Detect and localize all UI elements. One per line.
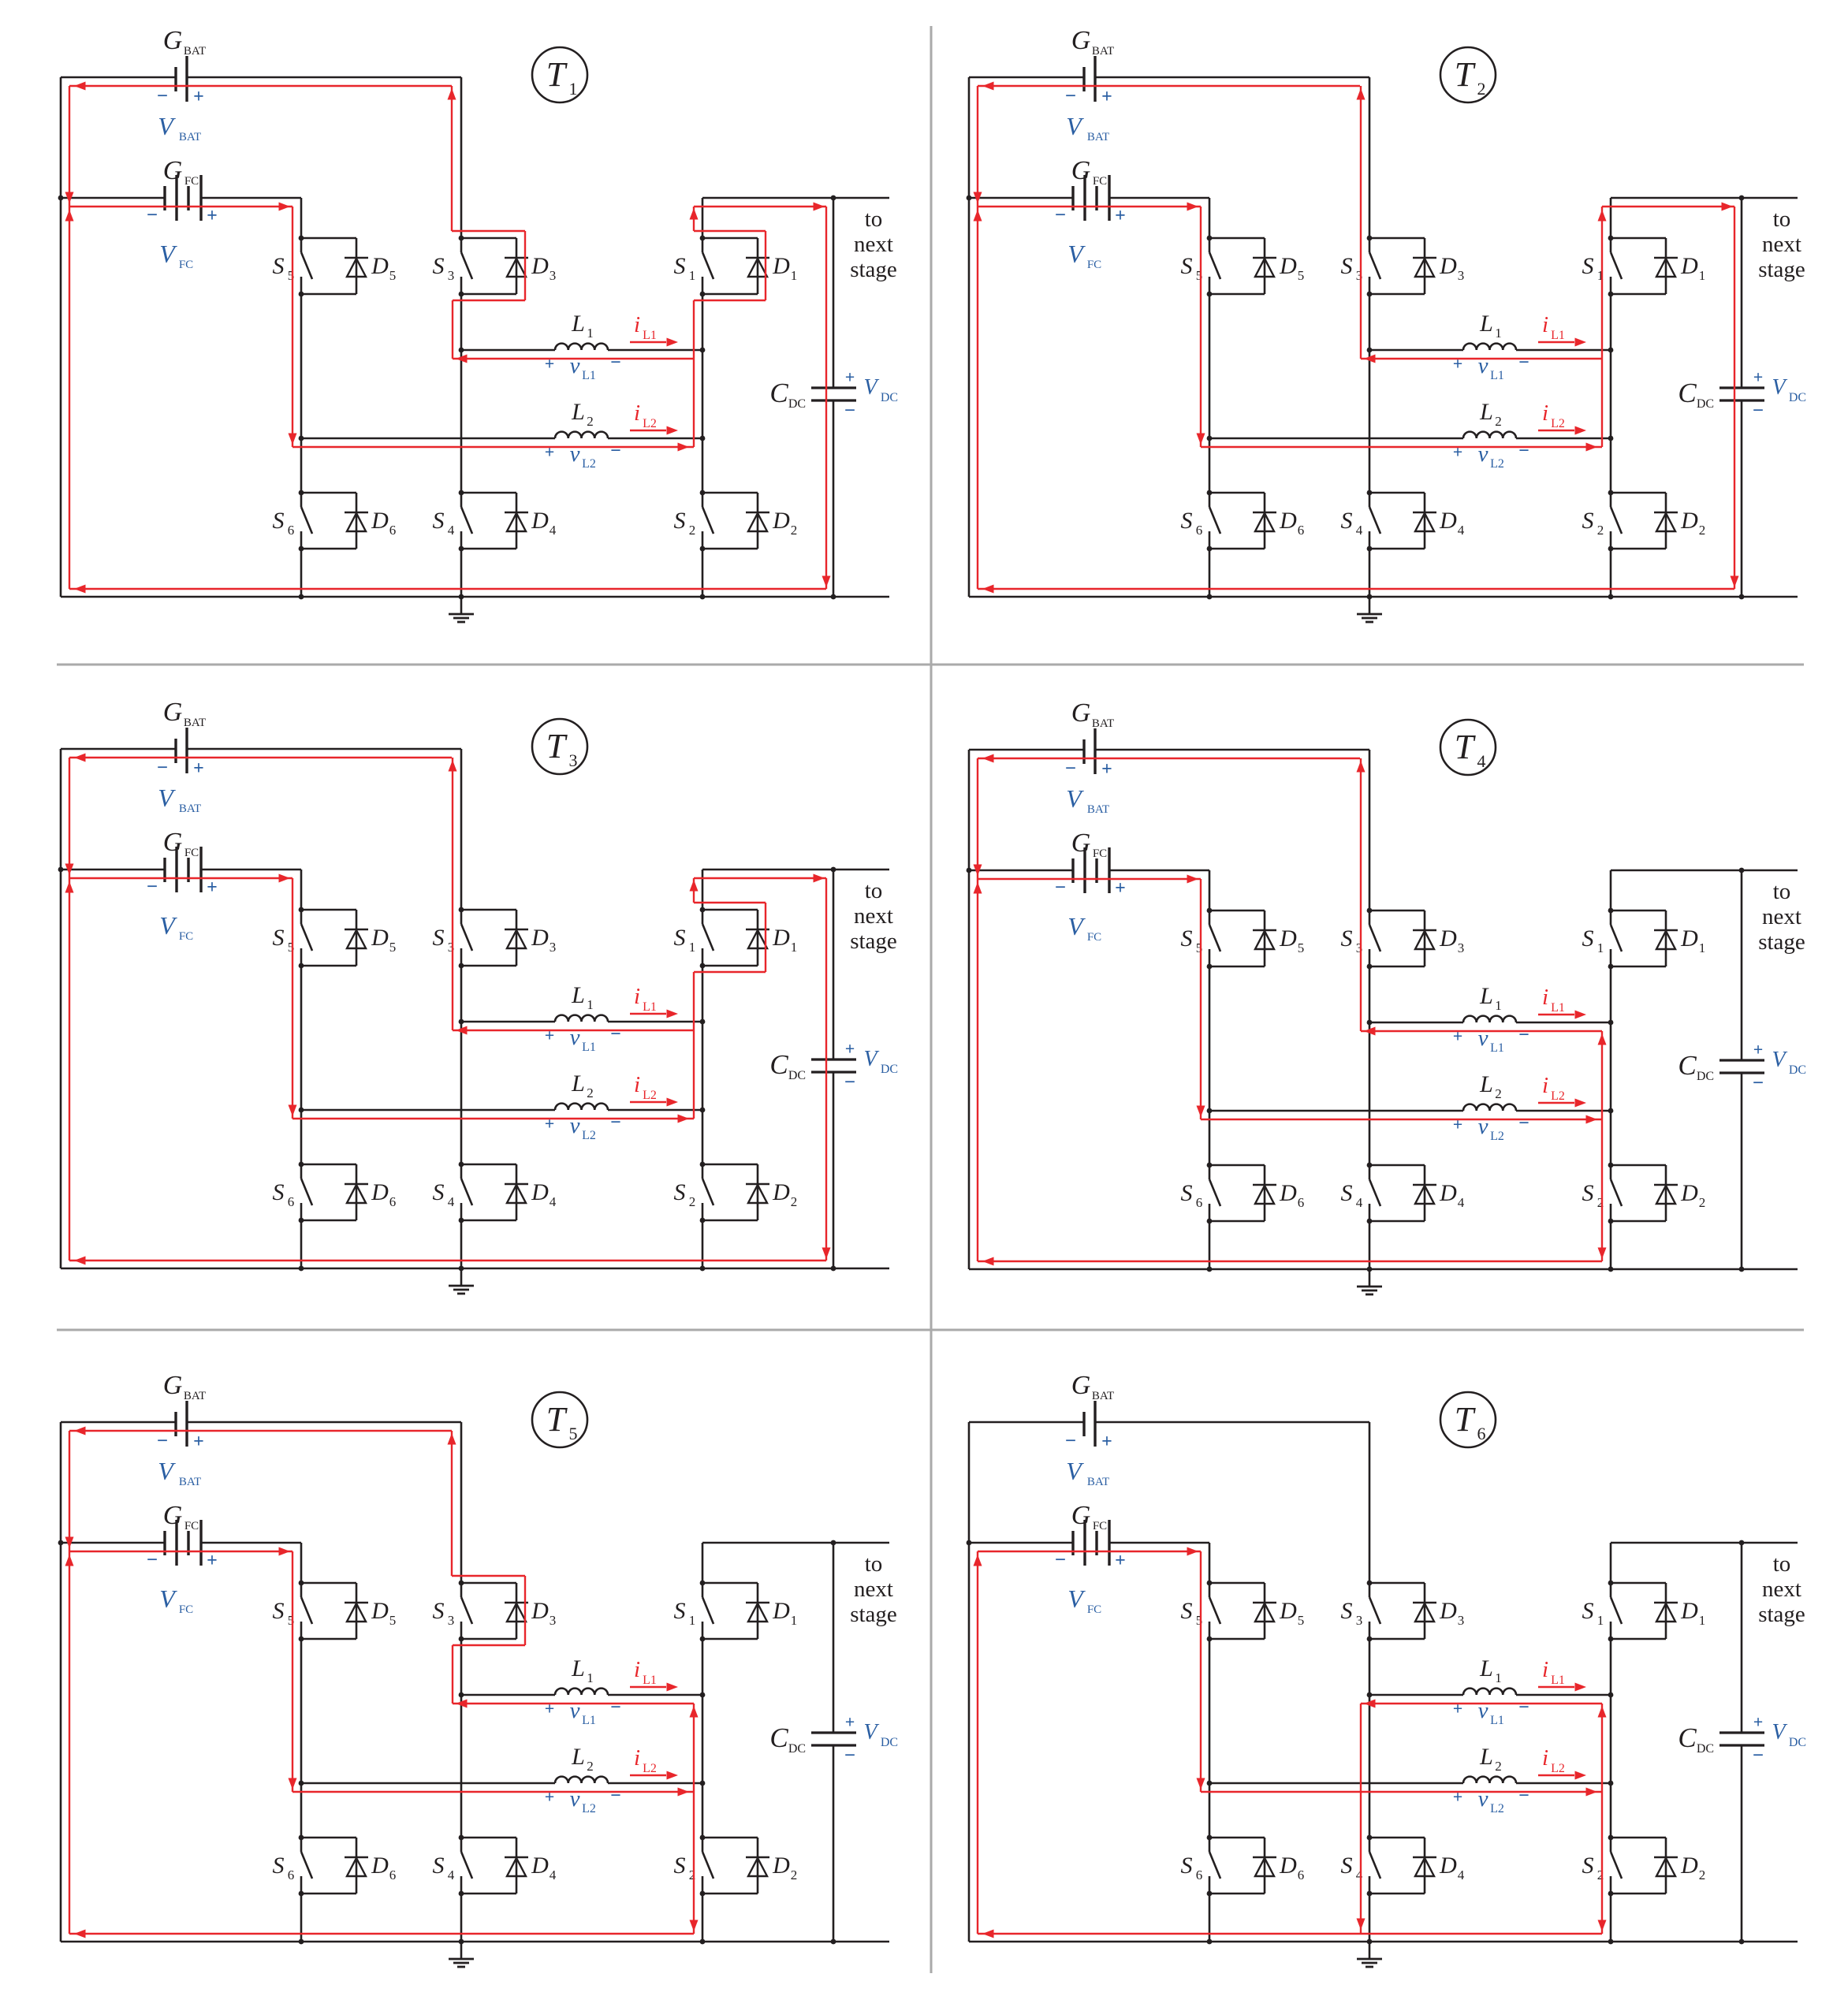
node S4 cell terminals T6 bbox=[1367, 1835, 1373, 1897]
svg-text:1: 1 bbox=[1495, 998, 1502, 1013]
wire leg S3-S4 T6 bbox=[1369, 1422, 1371, 1942]
svg-text:+: + bbox=[1101, 1432, 1112, 1452]
svg-text:L: L bbox=[1479, 1071, 1493, 1097]
red current arrows T2 bbox=[974, 82, 1739, 594]
svg-text:+: + bbox=[845, 367, 855, 387]
svg-text:V: V bbox=[1066, 784, 1084, 813]
svg-text:4: 4 bbox=[1458, 1868, 1465, 1882]
svg-text:+: + bbox=[1115, 878, 1126, 899]
svg-text:L: L bbox=[571, 1071, 585, 1097]
inductor L2 T1 bbox=[301, 399, 702, 438]
svg-text:D: D bbox=[531, 1598, 549, 1624]
svg-text:FC: FC bbox=[179, 930, 193, 943]
wire bottom rail T3 bbox=[61, 1268, 889, 1270]
svg-text:5: 5 bbox=[1298, 940, 1305, 955]
svg-text:L1: L1 bbox=[1551, 1674, 1565, 1687]
svg-text:D: D bbox=[531, 1179, 549, 1205]
node S6 cell terminals T4 bbox=[1207, 1163, 1213, 1224]
node S5 cell terminals T6 bbox=[1207, 1581, 1213, 1642]
battery G_BAT T3 bbox=[157, 698, 206, 779]
node S2 cell terminals T3 bbox=[700, 1162, 706, 1223]
switch S6 T5 bbox=[273, 1838, 313, 1894]
node S5 cell terminals T4 bbox=[1207, 908, 1213, 970]
battery G_BAT T1 bbox=[157, 26, 206, 107]
node S1 cell terminals T3 bbox=[700, 907, 706, 969]
svg-text:1: 1 bbox=[1597, 1613, 1604, 1628]
label i_L1 T1 bbox=[630, 312, 678, 347]
svg-text:2: 2 bbox=[587, 414, 594, 429]
svg-text:S: S bbox=[1341, 1853, 1353, 1879]
svg-text:V: V bbox=[158, 112, 176, 140]
node S5 cell terminals T1 bbox=[299, 236, 304, 297]
svg-text:L: L bbox=[571, 1744, 585, 1770]
svg-text:2: 2 bbox=[791, 1868, 798, 1882]
node dc bus top T2 bbox=[1739, 196, 1745, 201]
label V_BAT T5 bbox=[158, 1457, 201, 1488]
svg-text:BAT: BAT bbox=[1092, 45, 1114, 58]
node L2 terminals T1 bbox=[299, 436, 706, 441]
svg-text:L2: L2 bbox=[582, 1802, 596, 1815]
svg-text:+: + bbox=[1453, 354, 1463, 374]
inductor L1 T2 bbox=[1369, 311, 1611, 350]
label V_DC T4 bbox=[1753, 1040, 1806, 1094]
svg-text:FC: FC bbox=[184, 175, 199, 188]
diode D3 T3 bbox=[461, 910, 556, 966]
svg-text:S: S bbox=[433, 253, 445, 279]
svg-text:3: 3 bbox=[569, 750, 578, 770]
svg-text:C: C bbox=[1678, 378, 1697, 408]
svg-text:4: 4 bbox=[1356, 1195, 1363, 1210]
svg-text:−: − bbox=[147, 877, 158, 898]
label to next stage T5 bbox=[850, 1551, 897, 1627]
wire leg S1-S2 T3 bbox=[702, 870, 704, 1268]
svg-text:L2: L2 bbox=[1551, 1762, 1565, 1775]
svg-text:D: D bbox=[1439, 508, 1457, 534]
switch S5 T4 bbox=[1181, 910, 1221, 966]
label V_FC T6 bbox=[1067, 1585, 1101, 1616]
label i_L1 T6 bbox=[1538, 1657, 1586, 1692]
svg-text:+: + bbox=[545, 1699, 555, 1719]
svg-text:V: V bbox=[863, 1720, 879, 1745]
wire dc positive rail T1 bbox=[702, 197, 889, 199]
wire leg S5-S6 T4 bbox=[1209, 870, 1211, 1269]
wire leg S1-S2 T1 bbox=[702, 198, 704, 597]
svg-text:−: − bbox=[157, 758, 168, 779]
node fuel-cell left junction T3 bbox=[58, 867, 64, 873]
panel divider vertical bbox=[930, 26, 933, 1973]
svg-text:i: i bbox=[1542, 985, 1548, 1010]
svg-text:DC: DC bbox=[1697, 1070, 1714, 1083]
svg-text:next: next bbox=[854, 1577, 893, 1602]
svg-text:L1: L1 bbox=[643, 1674, 657, 1687]
label v_L1 T3 bbox=[545, 1024, 621, 1054]
node S2 cell terminals T1 bbox=[700, 490, 706, 552]
panel divider horizontal 1 bbox=[57, 664, 1804, 666]
wire battery top rail T1 bbox=[61, 76, 461, 79]
svg-text:−: − bbox=[1753, 1745, 1764, 1767]
svg-text:4: 4 bbox=[1458, 1195, 1465, 1210]
svg-text:D: D bbox=[531, 253, 549, 279]
svg-text:+: + bbox=[1453, 1115, 1463, 1134]
label v_L2 T1 bbox=[545, 441, 621, 471]
svg-text:+: + bbox=[1101, 87, 1112, 107]
svg-text:+: + bbox=[207, 206, 218, 226]
svg-text:3: 3 bbox=[550, 940, 557, 955]
phase label T5 bbox=[532, 1392, 587, 1447]
svg-text:BAT: BAT bbox=[179, 131, 201, 143]
node S4 cell terminals T1 bbox=[459, 490, 464, 552]
svg-text:L1: L1 bbox=[582, 1041, 596, 1054]
svg-text:S: S bbox=[433, 1598, 445, 1624]
svg-text:1: 1 bbox=[1699, 1613, 1706, 1628]
wire left rail T2 bbox=[968, 77, 971, 597]
svg-text:stage: stage bbox=[850, 929, 897, 954]
label V_BAT T2 bbox=[1066, 112, 1109, 143]
switch S2 T6 bbox=[1582, 1838, 1623, 1894]
svg-text:L2: L2 bbox=[643, 417, 657, 430]
switch S2 T1 bbox=[674, 493, 714, 549]
switch S3 T1 bbox=[433, 238, 473, 294]
diode D2 T2 bbox=[1611, 493, 1705, 549]
label i_L2 T4 bbox=[1538, 1073, 1586, 1108]
svg-text:+: + bbox=[1453, 1787, 1463, 1807]
svg-text:+: + bbox=[193, 87, 204, 107]
switch S4 T1 bbox=[433, 493, 473, 549]
svg-text:−: − bbox=[147, 1550, 158, 1571]
switch S2 T3 bbox=[674, 1164, 714, 1220]
svg-text:1: 1 bbox=[587, 1670, 594, 1685]
svg-text:2: 2 bbox=[1597, 523, 1604, 538]
wire bottom rail T2 bbox=[969, 596, 1798, 598]
wire leg S5-S6 T3 bbox=[300, 870, 303, 1268]
node L2 terminals T4 bbox=[1207, 1108, 1614, 1114]
svg-text:D: D bbox=[531, 1853, 549, 1879]
svg-text:L: L bbox=[571, 1655, 585, 1681]
svg-text:BAT: BAT bbox=[184, 717, 206, 729]
svg-text:v: v bbox=[570, 441, 580, 467]
node fuel-cell left junction T6 bbox=[967, 1540, 972, 1546]
svg-text:−: − bbox=[610, 1024, 621, 1045]
switch S1 T5 bbox=[674, 1583, 714, 1639]
label to next stage T3 bbox=[850, 878, 897, 954]
svg-text:i: i bbox=[1542, 312, 1548, 337]
svg-text:2: 2 bbox=[689, 523, 696, 538]
diode D4 T3 bbox=[461, 1164, 557, 1220]
wire leg S5-S6 T5 bbox=[300, 1543, 303, 1942]
svg-text:to: to bbox=[1773, 1551, 1791, 1577]
label V_DC T2 bbox=[1753, 367, 1806, 422]
svg-text:2: 2 bbox=[689, 1194, 696, 1209]
svg-text:1: 1 bbox=[1495, 1670, 1502, 1685]
svg-text:C: C bbox=[769, 1722, 788, 1753]
svg-text:D: D bbox=[1439, 1180, 1457, 1206]
node bottom rail junctions T6 bbox=[1207, 1939, 1614, 1945]
svg-text:4: 4 bbox=[1477, 751, 1486, 771]
svg-text:+: + bbox=[545, 1787, 555, 1807]
svg-text:L1: L1 bbox=[582, 1714, 596, 1727]
wire dc bus T5 bbox=[833, 1543, 835, 1942]
ground T3 bbox=[449, 1268, 474, 1294]
svg-text:BAT: BAT bbox=[1087, 131, 1109, 143]
svg-text:S: S bbox=[1582, 508, 1594, 534]
svg-text:3: 3 bbox=[1458, 1613, 1465, 1628]
svg-text:V: V bbox=[1066, 1457, 1084, 1485]
svg-text:D: D bbox=[1680, 925, 1698, 951]
wire dc bus T3 bbox=[833, 870, 835, 1268]
ground T1 bbox=[449, 597, 474, 622]
wire bottom rail T5 bbox=[61, 1941, 889, 1943]
svg-text:2: 2 bbox=[791, 1194, 798, 1209]
diode D5 T5 bbox=[301, 1583, 396, 1639]
capacitor C_DC T6 bbox=[1678, 1722, 1764, 1756]
label v_L1 T4 bbox=[1453, 1025, 1529, 1055]
svg-text:1: 1 bbox=[689, 940, 696, 955]
switch S2 T5 bbox=[674, 1838, 714, 1894]
svg-text:6: 6 bbox=[1298, 1868, 1305, 1882]
svg-text:D: D bbox=[371, 508, 389, 534]
svg-text:6: 6 bbox=[1477, 1424, 1486, 1443]
diode D5 T4 bbox=[1209, 910, 1304, 966]
svg-text:D: D bbox=[531, 508, 549, 534]
wire battery top rail T4 bbox=[969, 749, 1369, 751]
diode D4 T1 bbox=[461, 493, 557, 549]
svg-text:L2: L2 bbox=[582, 1129, 596, 1142]
red current arrows T5 bbox=[65, 1427, 699, 1938]
svg-text:L1: L1 bbox=[582, 369, 596, 382]
svg-text:L: L bbox=[1479, 311, 1493, 337]
wire leg S1-S2 T6 bbox=[1610, 1543, 1612, 1942]
node S4 cell terminals T3 bbox=[459, 1162, 464, 1223]
wire battery top rail T3 bbox=[61, 748, 461, 750]
svg-text:next: next bbox=[854, 903, 893, 929]
svg-text:BAT: BAT bbox=[1092, 1390, 1114, 1402]
wire dc positive rail T2 bbox=[1611, 197, 1798, 199]
svg-text:5: 5 bbox=[389, 268, 397, 283]
label V_DC T1 bbox=[844, 367, 898, 422]
switch S5 T5 bbox=[273, 1583, 313, 1639]
svg-text:V: V bbox=[1772, 1720, 1787, 1745]
label V_FC T4 bbox=[1067, 912, 1101, 944]
diode D1 T4 bbox=[1611, 910, 1705, 966]
svg-text:D: D bbox=[1439, 1598, 1457, 1624]
wire dc positive rail T3 bbox=[702, 869, 889, 871]
svg-text:4: 4 bbox=[1356, 1868, 1363, 1882]
svg-text:3: 3 bbox=[448, 1613, 455, 1628]
red current arrows T4 bbox=[974, 754, 1607, 1266]
svg-text:v: v bbox=[1478, 1786, 1488, 1812]
svg-text:v: v bbox=[570, 1698, 580, 1723]
switch S4 T5 bbox=[433, 1838, 473, 1894]
svg-text:DC: DC bbox=[788, 397, 806, 411]
diode D1 T1 bbox=[702, 238, 797, 294]
svg-text:−: − bbox=[1518, 1786, 1529, 1806]
diode D6 T5 bbox=[301, 1838, 396, 1894]
svg-text:G: G bbox=[1071, 698, 1091, 728]
svg-text:C: C bbox=[1678, 1722, 1697, 1753]
svg-text:V: V bbox=[1772, 375, 1787, 400]
svg-text:2: 2 bbox=[1699, 523, 1706, 538]
red current path T3 bbox=[69, 758, 826, 1261]
label v_L1 T6 bbox=[1453, 1697, 1529, 1727]
svg-text:D: D bbox=[1680, 1598, 1698, 1624]
svg-text:FC: FC bbox=[1087, 259, 1101, 271]
node S6 cell terminals T3 bbox=[299, 1162, 304, 1223]
svg-text:D: D bbox=[371, 925, 389, 951]
svg-text:S: S bbox=[273, 1853, 285, 1879]
svg-text:4: 4 bbox=[550, 1194, 557, 1209]
svg-text:D: D bbox=[1279, 1598, 1297, 1624]
diode D5 T2 bbox=[1209, 238, 1304, 294]
svg-text:1: 1 bbox=[791, 940, 798, 955]
diode D4 T6 bbox=[1369, 1838, 1465, 1894]
svg-text:6: 6 bbox=[389, 523, 397, 538]
switch S5 T6 bbox=[1181, 1583, 1221, 1639]
node S5 cell terminals T3 bbox=[299, 907, 304, 969]
node S4 cell terminals T5 bbox=[459, 1835, 464, 1897]
node fuel-cell left junction T4 bbox=[967, 868, 972, 873]
svg-text:−: − bbox=[610, 1786, 621, 1806]
wire fuel-cell rail T3 bbox=[61, 869, 301, 871]
node bottom rail junctions T3 bbox=[299, 1266, 706, 1272]
wire leg S5-S6 T6 bbox=[1209, 1543, 1211, 1942]
svg-text:D: D bbox=[371, 1179, 389, 1205]
svg-text:DC: DC bbox=[1697, 397, 1714, 411]
diode D4 T2 bbox=[1369, 493, 1465, 549]
switch S1 T4 bbox=[1582, 910, 1623, 966]
ground T6 bbox=[1357, 1942, 1382, 1967]
svg-text:DC: DC bbox=[1789, 1063, 1806, 1077]
node S6 cell terminals T1 bbox=[299, 490, 304, 552]
switch S1 T2 bbox=[1582, 238, 1623, 294]
red current path T4 bbox=[978, 758, 1602, 1261]
node S1 cell terminals T6 bbox=[1608, 1581, 1614, 1642]
node S3 cell terminals T4 bbox=[1367, 908, 1373, 970]
switch S2 T4 bbox=[1582, 1165, 1623, 1221]
svg-text:L: L bbox=[1479, 1655, 1493, 1681]
diode D5 T6 bbox=[1209, 1583, 1304, 1639]
ground T2 bbox=[1357, 597, 1382, 622]
diode D1 T5 bbox=[702, 1583, 797, 1639]
node dc bus bottom T4 bbox=[1739, 1267, 1745, 1272]
svg-text:−: − bbox=[1518, 352, 1529, 373]
wire dc bus T1 bbox=[833, 198, 835, 597]
svg-text:+: + bbox=[1453, 1026, 1463, 1046]
inductor L1 T4 bbox=[1369, 983, 1611, 1022]
node S2 cell terminals T6 bbox=[1608, 1835, 1614, 1897]
wire leg S5-S6 T1 bbox=[300, 198, 303, 597]
svg-text:−: − bbox=[1753, 400, 1764, 422]
svg-text:G: G bbox=[1071, 829, 1091, 858]
svg-text:G: G bbox=[1071, 26, 1091, 55]
svg-text:+: + bbox=[193, 758, 204, 779]
svg-text:L: L bbox=[571, 311, 585, 337]
svg-text:stage: stage bbox=[850, 1602, 897, 1627]
node dc bus bottom T6 bbox=[1739, 1939, 1745, 1945]
svg-text:v: v bbox=[1478, 353, 1488, 378]
node S3 cell terminals T3 bbox=[459, 907, 464, 969]
svg-text:6: 6 bbox=[1196, 523, 1203, 538]
svg-text:D: D bbox=[1439, 253, 1457, 279]
switch S5 T1 bbox=[273, 238, 313, 294]
svg-text:+: + bbox=[845, 1712, 855, 1732]
svg-text:1: 1 bbox=[1495, 326, 1502, 341]
svg-text:BAT: BAT bbox=[1087, 1476, 1109, 1488]
svg-text:S: S bbox=[1181, 253, 1193, 279]
node L1 terminals T3 bbox=[459, 1019, 706, 1025]
switch S4 T3 bbox=[433, 1164, 473, 1220]
svg-text:6: 6 bbox=[389, 1868, 397, 1882]
label V_BAT T1 bbox=[158, 112, 201, 143]
wire leg S1-S2 T5 bbox=[702, 1543, 704, 1942]
svg-text:D: D bbox=[371, 1598, 389, 1624]
wire leg S3-S4 T4 bbox=[1369, 750, 1371, 1269]
switch S6 T1 bbox=[273, 493, 313, 549]
node dc bus top T3 bbox=[831, 867, 836, 873]
svg-text:D: D bbox=[1279, 1180, 1297, 1206]
svg-text:−: − bbox=[147, 205, 158, 226]
svg-text:4: 4 bbox=[550, 1868, 557, 1882]
svg-text:FC: FC bbox=[1093, 175, 1107, 188]
node S3 cell terminals T6 bbox=[1367, 1581, 1373, 1642]
node fuel-cell left junction T5 bbox=[58, 1540, 64, 1546]
label i_L1 T3 bbox=[630, 984, 678, 1018]
label V_FC T2 bbox=[1067, 240, 1101, 271]
label to next stage T4 bbox=[1758, 879, 1805, 955]
label V_BAT T6 bbox=[1066, 1457, 1109, 1488]
svg-text:i: i bbox=[1542, 1745, 1548, 1771]
svg-text:FC: FC bbox=[1093, 1520, 1107, 1532]
wire leg S1-S2 T4 bbox=[1610, 870, 1612, 1269]
switch S5 T2 bbox=[1181, 238, 1221, 294]
svg-text:+: + bbox=[1115, 1551, 1126, 1571]
node S5 cell terminals T5 bbox=[299, 1581, 304, 1642]
svg-text:L2: L2 bbox=[1490, 1802, 1504, 1815]
switch S3 T5 bbox=[433, 1583, 473, 1639]
svg-text:S: S bbox=[1181, 508, 1193, 534]
label V_BAT T3 bbox=[158, 784, 201, 815]
label V_BAT T4 bbox=[1066, 784, 1109, 816]
phase label T3 bbox=[532, 719, 587, 774]
red current arrows T6 bbox=[974, 1547, 1607, 1938]
node dc bus bottom T3 bbox=[831, 1266, 836, 1272]
node dc bus top T4 bbox=[1739, 868, 1745, 873]
svg-text:G: G bbox=[163, 828, 183, 857]
label to next stage T6 bbox=[1758, 1551, 1805, 1627]
svg-text:to: to bbox=[1773, 207, 1791, 232]
switch S3 T2 bbox=[1341, 238, 1381, 294]
svg-text:next: next bbox=[1762, 904, 1801, 929]
svg-text:S: S bbox=[674, 1598, 686, 1624]
red current path T6 bbox=[978, 1551, 1602, 1934]
diode D1 T2 bbox=[1611, 238, 1705, 294]
node S3 cell terminals T2 bbox=[1367, 236, 1373, 297]
svg-text:T: T bbox=[1455, 728, 1477, 766]
svg-text:+: + bbox=[1753, 1712, 1764, 1732]
svg-text:1: 1 bbox=[791, 1613, 798, 1628]
svg-text:D: D bbox=[1680, 253, 1698, 279]
node L1 terminals T1 bbox=[459, 348, 706, 353]
svg-text:−: − bbox=[1518, 1113, 1529, 1134]
svg-text:V: V bbox=[1067, 912, 1086, 940]
capacitor C_DC T1 bbox=[769, 378, 856, 411]
svg-text:v: v bbox=[1478, 1026, 1488, 1051]
svg-text:1: 1 bbox=[569, 79, 578, 99]
svg-text:V: V bbox=[1067, 240, 1086, 268]
label v_L2 T4 bbox=[1453, 1113, 1529, 1143]
diode D2 T1 bbox=[702, 493, 797, 549]
svg-text:DC: DC bbox=[881, 1063, 898, 1076]
svg-text:+: + bbox=[207, 1551, 218, 1571]
